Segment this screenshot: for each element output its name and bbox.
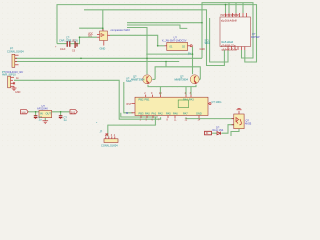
svg-text:Re5.sDa6: Re5.sDa6	[222, 40, 234, 44]
svg-text:PB2: PB2	[139, 98, 144, 102]
svg-text:Rect 1N4: Rect 1N4	[213, 128, 224, 132]
svg-text:DIPSW: DIPSW	[251, 35, 260, 39]
svg-text:C? 100n: C? 100n	[212, 100, 222, 104]
svg-text:SDA: SDA	[126, 79, 132, 83]
svg-text:SIG: SIG	[88, 35, 92, 38]
svg-text:a1p2b3c4d5e6f: a1p2b3c4d5e6f	[221, 21, 237, 23]
svg-text:g7h8i9j0k1l2m: g7h8i9j0k1l2m	[221, 45, 236, 47]
svg-text:PB1: PB1	[145, 98, 150, 102]
svg-text:PA6: PA6	[173, 111, 178, 115]
svg-text:PA7: PA7	[183, 111, 188, 115]
svg-text:GND: GND	[15, 91, 21, 94]
svg-text:AVR_ISP10: AVR_ISP10	[2, 72, 16, 76]
svg-text:VIN: VIN	[22, 111, 26, 114]
svg-text:5V: 5V	[188, 52, 191, 56]
svg-text:comparator MAX: comparator MAX	[111, 28, 131, 32]
svg-text:PA0: PA0	[145, 111, 150, 115]
svg-text:PA1: PA1	[152, 111, 157, 115]
svg-text:PA2: PA2	[158, 111, 163, 115]
svg-text:PA3: PA3	[189, 98, 194, 102]
svg-text:CONN_01X04: CONN_01X04	[101, 144, 118, 148]
svg-text:4N35: 4N35	[245, 122, 252, 126]
svg-text:10uF: 10uF	[60, 48, 66, 51]
svg-text:AP2204K: AP2204K	[37, 107, 48, 111]
svg-text:RST: RST	[127, 103, 132, 106]
svg-text:CONN_01X04: CONN_01X04	[7, 50, 24, 54]
svg-text:q8r9s0t1u2v3w: q8r9s0t1u2v3w	[222, 48, 238, 51]
svg-text:PA4: PA4	[183, 98, 188, 102]
svg-text:SDA: SDA	[205, 41, 211, 45]
svg-text:CAP_CER_2.2U: CAP_CER_2.2U	[59, 38, 78, 42]
svg-text:PB3: PB3	[139, 111, 144, 115]
svg-text:MMBT3904: MMBT3904	[131, 78, 145, 82]
svg-text:IN: IN	[206, 132, 209, 135]
svg-text:M: M	[126, 111, 128, 115]
svg-text:GND: GND	[100, 47, 106, 51]
svg-text:OUT: OUT	[46, 112, 52, 116]
svg-text:3V3: 3V3	[71, 112, 76, 115]
svg-text:K_JW-SMT-1MDC5V: K_JW-SMT-1MDC5V	[162, 38, 187, 42]
svg-text:P1P2P3P4P5P6P: P1P2P3P4P5P6P	[221, 15, 240, 17]
svg-text:GND: GND	[200, 48, 206, 51]
svg-text:GND: GND	[196, 111, 202, 115]
svg-text:MMBT3904: MMBT3904	[175, 78, 189, 82]
svg-text:PA5: PA5	[166, 111, 171, 115]
